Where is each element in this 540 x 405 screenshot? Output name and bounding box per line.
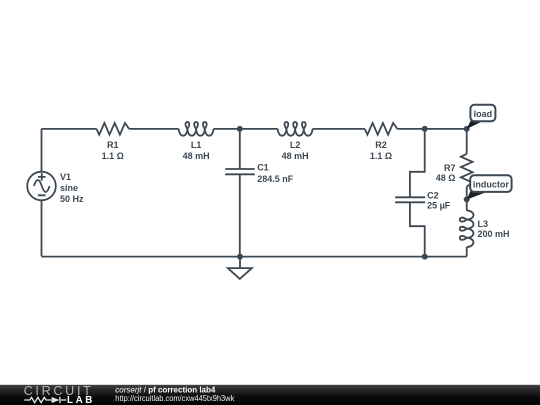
svg-text:R1: R1 xyxy=(107,140,119,150)
svg-text:48 mH: 48 mH xyxy=(183,151,210,161)
svg-text:corserjt / pf correction lab4: corserjt / pf correction lab4 xyxy=(115,385,216,394)
svg-text:C1: C1 xyxy=(257,163,269,173)
svg-text:R2: R2 xyxy=(375,140,387,150)
svg-text:R7: R7 xyxy=(444,163,456,173)
svg-text:284.5 nF: 284.5 nF xyxy=(257,174,294,184)
svg-text:L3: L3 xyxy=(478,219,489,229)
svg-text:48 mH: 48 mH xyxy=(282,151,309,161)
svg-text:sine: sine xyxy=(60,183,78,193)
svg-text:inductor: inductor xyxy=(473,179,509,189)
svg-text:200 mH: 200 mH xyxy=(478,229,510,239)
svg-text:LAB: LAB xyxy=(67,395,95,405)
svg-text:L2: L2 xyxy=(290,140,301,150)
svg-text:http://circuitlab.com/cxw445tx: http://circuitlab.com/cxw445tx9h3wk xyxy=(115,394,235,403)
svg-text:load: load xyxy=(474,109,493,119)
svg-text:48 Ω: 48 Ω xyxy=(436,173,456,183)
svg-text:L1: L1 xyxy=(191,140,202,150)
svg-text:50 Hz: 50 Hz xyxy=(60,194,84,204)
svg-text:1.1 Ω: 1.1 Ω xyxy=(102,151,124,161)
svg-text:25 µF: 25 µF xyxy=(427,201,451,211)
svg-text:1.1 Ω: 1.1 Ω xyxy=(370,151,392,161)
svg-text:C2: C2 xyxy=(427,191,439,201)
svg-text:V1: V1 xyxy=(60,172,71,182)
